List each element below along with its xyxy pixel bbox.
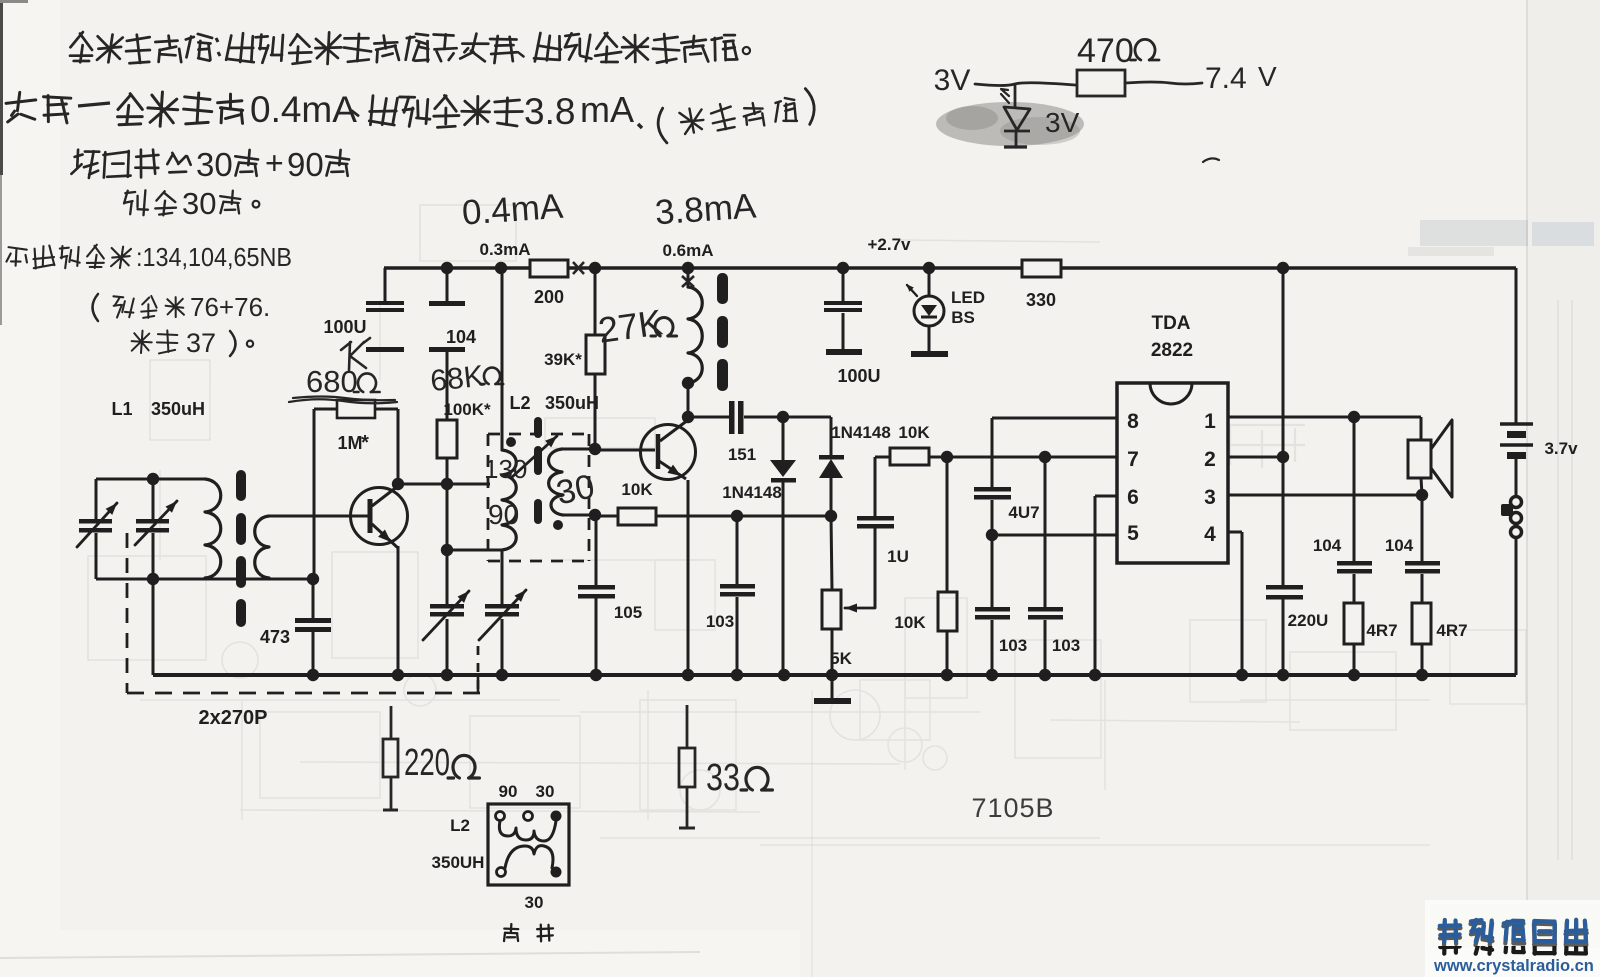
- svg-text:+2.7v: +2.7v: [867, 235, 911, 254]
- svg-text:76+76.: 76+76.: [190, 292, 270, 322]
- svg-text:3: 3: [1204, 486, 1216, 509]
- svg-text:LED: LED: [951, 288, 985, 307]
- svg-text:90: 90: [499, 782, 518, 801]
- svg-text:33: 33: [706, 757, 740, 799]
- svg-text:2: 2: [1204, 448, 1216, 471]
- svg-text:39K*: 39K*: [544, 350, 582, 369]
- svg-text:220: 220: [404, 742, 450, 784]
- svg-text:103: 103: [706, 612, 734, 631]
- svg-text:473: 473: [260, 627, 290, 647]
- svg-text:103: 103: [999, 636, 1027, 655]
- svg-text:37: 37: [186, 328, 216, 358]
- svg-text:0.4mA: 0.4mA: [461, 187, 565, 233]
- svg-text:0.6mA: 0.6mA: [662, 241, 713, 260]
- svg-text:330: 330: [1026, 290, 1056, 310]
- svg-text:104: 104: [1385, 536, 1414, 555]
- svg-text:BS: BS: [951, 308, 975, 327]
- svg-text:3V: 3V: [934, 64, 971, 97]
- svg-text:103: 103: [1052, 636, 1080, 655]
- svg-text:3V: 3V: [1045, 107, 1080, 138]
- svg-text:220U: 220U: [1288, 611, 1329, 630]
- svg-text:1U: 1U: [887, 547, 909, 566]
- svg-text:100U: 100U: [837, 366, 880, 386]
- svg-text:10K: 10K: [894, 613, 926, 632]
- svg-text:*: *: [361, 432, 369, 454]
- svg-text:90: 90: [287, 146, 324, 183]
- svg-text:+: +: [265, 145, 284, 181]
- svg-text:6: 6: [1127, 486, 1139, 509]
- svg-text:30: 30: [525, 893, 544, 912]
- svg-text:7105B: 7105B: [971, 793, 1054, 823]
- svg-text:1M: 1M: [337, 433, 362, 453]
- svg-text:104: 104: [1313, 536, 1342, 555]
- svg-text:100U: 100U: [323, 317, 366, 337]
- svg-text::134,104,65NB: :134,104,65NB: [136, 242, 292, 272]
- svg-text:200: 200: [534, 287, 564, 307]
- svg-text:4: 4: [1204, 523, 1216, 546]
- svg-text:1: 1: [1204, 410, 1216, 433]
- svg-text:0.4mA: 0.4mA: [250, 89, 357, 130]
- svg-text:4R7: 4R7: [1436, 621, 1467, 640]
- svg-text:68K: 68K: [429, 360, 486, 398]
- svg-text:TDA: TDA: [1151, 313, 1190, 334]
- svg-text:350UH: 350UH: [432, 853, 485, 872]
- svg-text:4R7: 4R7: [1366, 621, 1397, 640]
- svg-text:105: 105: [614, 603, 642, 622]
- svg-text:1N4148: 1N4148: [831, 423, 891, 442]
- svg-text:3.7v: 3.7v: [1544, 439, 1578, 458]
- svg-text:5: 5: [1127, 522, 1139, 545]
- svg-text:30: 30: [536, 782, 555, 801]
- svg-text:0.3mA: 0.3mA: [479, 240, 530, 259]
- svg-text:L2: L2: [450, 816, 470, 835]
- svg-text:104: 104: [446, 327, 476, 347]
- svg-text:www.crystalradio.cn: www.crystalradio.cn: [1433, 957, 1594, 975]
- svg-text:mA: mA: [580, 89, 634, 130]
- svg-text:L2: L2: [509, 393, 530, 413]
- svg-text:100K*: 100K*: [443, 400, 491, 419]
- svg-text:2x270P: 2x270P: [199, 707, 268, 729]
- svg-text:10K: 10K: [621, 480, 653, 499]
- svg-text:10K: 10K: [898, 423, 930, 442]
- svg-text:3.8mA: 3.8mA: [654, 186, 758, 232]
- svg-text:L1: L1: [111, 399, 132, 419]
- svg-text:350uH: 350uH: [545, 393, 599, 413]
- svg-text:7.4: 7.4: [1205, 62, 1247, 95]
- svg-text:2822: 2822: [1151, 340, 1193, 361]
- svg-text:V: V: [1258, 61, 1277, 92]
- svg-text:470: 470: [1077, 32, 1134, 70]
- svg-text:90: 90: [488, 499, 519, 530]
- svg-text:30: 30: [182, 186, 216, 221]
- svg-text:130: 130: [484, 454, 527, 484]
- svg-text:30: 30: [553, 467, 598, 512]
- svg-text:8: 8: [1127, 410, 1139, 433]
- svg-text:3.8: 3.8: [524, 91, 575, 132]
- svg-text:350uH: 350uH: [151, 399, 205, 419]
- svg-text:151: 151: [728, 445, 756, 464]
- svg-text:30: 30: [196, 146, 233, 183]
- svg-text:4U7: 4U7: [1008, 503, 1039, 522]
- svg-text:5K: 5K: [830, 649, 852, 668]
- svg-text:7: 7: [1127, 448, 1139, 471]
- svg-text:1N4148: 1N4148: [722, 483, 782, 502]
